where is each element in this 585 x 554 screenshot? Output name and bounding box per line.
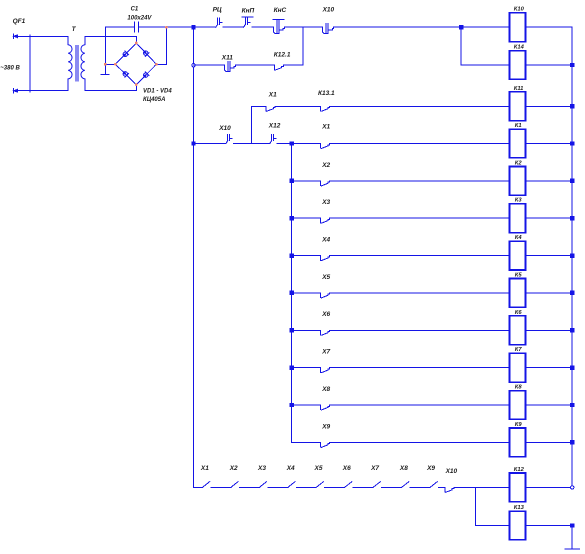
node bridge top vertex <box>135 42 138 45</box>
wire К7 to right bus <box>526 367 573 369</box>
wire X12 to ladder bus <box>277 143 291 145</box>
wire X1 to K1 <box>330 143 510 145</box>
wire bus to X11 <box>194 64 225 66</box>
svg-text:К6: К6 <box>515 310 523 316</box>
svg-text:К4: К4 <box>515 235 523 241</box>
svg-text:С1: С1 <box>131 7 139 13</box>
wire КнП to КнС <box>252 26 274 28</box>
wire secondary bottom to bridge <box>85 85 137 91</box>
node ladder bus X5 <box>289 291 293 295</box>
wire К1 to right bus <box>526 143 573 145</box>
relay coil К7 <box>510 353 526 382</box>
wire X7 to K7 <box>330 367 510 369</box>
svg-text:X4: X4 <box>286 465 295 472</box>
node bridge minus junction <box>104 63 107 66</box>
diode VD1 <box>122 51 129 58</box>
node right bus К1 <box>570 141 574 145</box>
node right bus К7 <box>570 366 574 370</box>
button КнС <box>273 19 285 33</box>
wire К13 to right bus <box>526 525 573 527</box>
node right bus К9 <box>570 440 574 444</box>
ground at bridge <box>101 73 109 75</box>
connector X10 bottom <box>445 487 454 492</box>
svg-text:X8: X8 <box>399 465 408 472</box>
svg-text:К7: К7 <box>515 347 523 353</box>
transformer T secondary winding <box>84 36 86 90</box>
wire К5 to right bus <box>526 292 573 294</box>
node left bus row2 (ring) <box>192 63 195 66</box>
svg-text:X6: X6 <box>321 311 330 318</box>
svg-text:К13.1: К13.1 <box>318 90 335 97</box>
relay coil К10 <box>510 13 526 42</box>
svg-text:К9: К9 <box>515 422 523 428</box>
wire К3 to right bus <box>526 217 573 219</box>
svg-text:X5: X5 <box>314 465 323 472</box>
svg-text:КЦ405А: КЦ405А <box>143 97 165 103</box>
node left bus row4 <box>191 141 195 145</box>
wire X1 to К13.1 <box>275 105 320 107</box>
node right bus К5 <box>570 291 574 295</box>
wire ladder to X3 <box>292 217 321 219</box>
wire X10 to K10 <box>334 26 510 28</box>
circuit breaker QF1 bar <box>29 35 31 92</box>
wire bottom row seg 1 <box>211 486 231 488</box>
wire secondary top to bridge <box>85 36 137 43</box>
diode VD3 <box>122 70 129 77</box>
relay coil К1 <box>510 129 526 158</box>
wire K14 branch down <box>461 27 509 65</box>
wire X11 to К12.1 <box>235 64 274 66</box>
svg-text:X1: X1 <box>268 91 277 98</box>
capacitor C1 <box>134 22 138 32</box>
contact X11 <box>225 62 236 72</box>
relay coil К8 <box>510 391 526 420</box>
wire X8 to K8 <box>330 404 510 406</box>
node ladder bus X6 <box>289 328 293 332</box>
node bridge left vertex <box>114 63 117 66</box>
svg-text:X11: X11 <box>221 55 233 62</box>
wire bottom row seg 7 <box>382 486 402 488</box>
node ladder bus top <box>289 141 293 145</box>
wire К12.1 to riser <box>284 64 303 66</box>
svg-text:РЦ: РЦ <box>213 7 222 14</box>
wire bus corner to bottom row <box>194 486 203 488</box>
wire К2 to right bus <box>526 180 573 182</box>
node ladder bus X3 <box>289 216 293 220</box>
wire X10 to К12 coil <box>455 486 510 488</box>
svg-text:К10: К10 <box>514 7 525 13</box>
wire left bus <box>193 27 195 487</box>
wire primary bottom <box>14 90 68 92</box>
relay coil К9 <box>510 428 526 457</box>
svg-text:К13: К13 <box>514 505 525 511</box>
svg-text:X2: X2 <box>229 465 238 472</box>
connector X7 bottom <box>373 482 380 488</box>
contact X1 row4 <box>321 143 330 148</box>
node bridge right vertex <box>155 63 158 66</box>
wire ladder to X6 <box>292 329 321 331</box>
wire bridge minus to ground <box>105 27 115 73</box>
wire bridge plus up <box>156 27 166 64</box>
button КнП <box>242 17 253 27</box>
wire bus to РЦ <box>194 26 216 28</box>
wire ladder to X2 <box>292 180 321 182</box>
transformer T core <box>76 45 78 81</box>
connector X6 bottom <box>345 482 352 488</box>
wire right bus <box>571 27 573 487</box>
svg-text:КнС: КнС <box>274 7 287 14</box>
node C1/plus junction <box>165 26 168 29</box>
svg-text:X5: X5 <box>321 274 330 281</box>
svg-text:X9: X9 <box>426 465 435 472</box>
svg-text:VD1 - VD4: VD1 - VD4 <box>143 89 172 95</box>
contact X2 rung <box>321 181 330 186</box>
connector X4 bottom <box>288 482 295 488</box>
node right bus К2 <box>570 179 574 183</box>
connector X5 bottom <box>316 482 323 488</box>
wire X5 to K5 <box>330 292 510 294</box>
node right bus К3 <box>570 216 574 220</box>
wire bottom row seg 3 <box>268 486 288 488</box>
QF1 input arrow bottom <box>12 89 17 93</box>
contact X5 rung <box>321 293 330 298</box>
wire К4 to right bus <box>526 255 573 257</box>
wire X3 to K3 <box>330 217 510 219</box>
wire К10 to right bus <box>526 26 573 28</box>
node K14 branch <box>459 25 463 29</box>
wire branch to К13 <box>476 487 510 525</box>
svg-text:X9: X9 <box>321 423 330 430</box>
svg-text:T: T <box>72 26 77 33</box>
node right bus К8 <box>570 403 574 407</box>
node right bus К4 <box>570 253 574 257</box>
ground at right bus <box>565 548 579 550</box>
wire К8 to right bus <box>526 404 573 406</box>
wire К6 to right bus <box>526 329 573 331</box>
svg-text:К3: К3 <box>515 198 523 204</box>
wire ladder to X5 <box>292 292 321 294</box>
svg-text:X1: X1 <box>321 123 330 130</box>
svg-text:100х24V: 100х24V <box>127 16 152 22</box>
svg-text:К1: К1 <box>515 123 522 129</box>
wire riser row2 to top rung <box>302 27 304 65</box>
node right bus К6 <box>570 328 574 332</box>
wire X9 to K9 <box>330 441 510 443</box>
contact X4 rung <box>321 256 330 261</box>
wire ladder to X9 <box>292 441 321 443</box>
relay coil К5 <box>510 279 526 308</box>
svg-text:QF1: QF1 <box>13 18 26 25</box>
wire К13.1 to K11 <box>330 105 510 107</box>
wire X6 to K6 <box>330 329 510 331</box>
contact X7 rung <box>321 368 330 373</box>
wire C1 right to bus <box>139 26 194 28</box>
contact X6 rung <box>321 330 330 335</box>
contact К12.1 <box>274 65 283 70</box>
wire row3 left <box>251 105 266 107</box>
wire bottom row seg 5 <box>325 486 345 488</box>
svg-text:X1: X1 <box>200 465 209 472</box>
connector X9 bottom <box>430 482 437 488</box>
wire X4 to K4 <box>330 255 510 257</box>
contact X10 row4 <box>226 134 232 143</box>
contact X10 top <box>323 24 334 34</box>
svg-text:X7: X7 <box>370 465 379 472</box>
diode VD4 <box>142 72 149 79</box>
wire bottom row seg 8 <box>410 486 430 488</box>
relay coil К11 <box>510 92 526 121</box>
svg-text:X3: X3 <box>257 465 266 472</box>
connector X8 bottom <box>402 482 409 488</box>
svg-text:X4: X4 <box>321 237 330 244</box>
node ladder bus X7 <box>289 366 293 370</box>
wire К11 to right bus <box>526 105 573 107</box>
svg-text:К11: К11 <box>514 86 524 92</box>
node bridge bottom vertex <box>135 83 138 86</box>
node right bus К14 <box>570 63 574 67</box>
wire bottom row seg 9 <box>439 486 445 488</box>
svg-text:К12.1: К12.1 <box>274 52 291 59</box>
wire К13 bus to ground <box>571 526 573 549</box>
wire КнС to X10 <box>284 26 322 28</box>
node left bus top <box>191 25 195 29</box>
svg-text:X8: X8 <box>321 386 330 393</box>
wire К14 to right bus <box>526 64 573 66</box>
svg-text:К2: К2 <box>515 160 523 166</box>
node right bus К12 (ring) <box>571 486 574 489</box>
diode VD2 <box>142 50 149 57</box>
node right bus К11 <box>570 104 574 108</box>
contact X9 rung <box>321 442 330 447</box>
transformer T primary winding <box>67 36 69 90</box>
svg-text:X10: X10 <box>445 468 458 475</box>
contact К13.1 <box>321 106 330 111</box>
svg-text:X3: X3 <box>321 199 330 206</box>
wire bottom row seg 6 <box>353 486 373 488</box>
connector X3 bottom <box>259 482 266 488</box>
connector X1 bottom <box>202 482 209 488</box>
bridge rectifier VD1-VD4 diamond <box>115 43 156 85</box>
contact X8 rung <box>321 405 330 410</box>
QF1 input arrow top <box>12 34 17 38</box>
svg-text:~380 В: ~380 В <box>0 65 20 71</box>
node ladder bus X4 <box>289 253 293 257</box>
contact X1 row3 <box>266 106 275 111</box>
wire X10 to X12 <box>233 143 269 145</box>
svg-text:X12: X12 <box>268 123 281 130</box>
svg-text:К12: К12 <box>514 467 525 473</box>
relay coil К2 <box>510 167 526 196</box>
wire ladder bus to X1 <box>292 143 321 145</box>
relay coil К6 <box>510 316 526 345</box>
contact X12 <box>270 134 276 143</box>
wire ladder to X7 <box>292 367 321 369</box>
wire bus to X10 row4 <box>194 143 226 145</box>
wire primary top <box>14 35 68 37</box>
relay coil К3 <box>510 204 526 233</box>
node right bus К13 <box>570 523 574 527</box>
svg-text:К14: К14 <box>514 45 525 51</box>
wire ladder bus <box>291 144 293 443</box>
relay coil К13 <box>510 511 526 540</box>
contact РЦ <box>216 18 222 27</box>
relay coil К12 <box>510 473 526 502</box>
connector X2 bottom <box>231 482 238 488</box>
svg-text:К8: К8 <box>515 385 523 391</box>
wire ladder to X8 <box>292 404 321 406</box>
svg-text:КнП: КнП <box>242 7 255 14</box>
wire bottom row seg 2 <box>239 486 259 488</box>
svg-text:X10: X10 <box>218 125 231 132</box>
wire riser row3-row4 <box>250 106 252 143</box>
node ladder bus X2 <box>289 179 293 183</box>
svg-text:X6: X6 <box>342 465 351 472</box>
contact X3 rung <box>321 218 330 223</box>
wire РЦ to КнП <box>223 26 243 28</box>
svg-text:К5: К5 <box>515 272 523 278</box>
wire К9 to right bus <box>526 441 573 443</box>
svg-text:X7: X7 <box>321 349 330 356</box>
svg-text:X10: X10 <box>322 7 335 14</box>
relay coil К14 <box>510 51 526 80</box>
svg-text:X2: X2 <box>321 162 330 169</box>
wire ladder to X4 <box>292 255 321 257</box>
wire C1 left <box>105 26 134 28</box>
node ladder bus X8 <box>289 403 293 407</box>
wire К12 to right bus <box>526 486 573 488</box>
wire bottom row seg 4 <box>296 486 316 488</box>
relay coil К4 <box>510 241 526 270</box>
wire X2 to K2 <box>330 180 510 182</box>
